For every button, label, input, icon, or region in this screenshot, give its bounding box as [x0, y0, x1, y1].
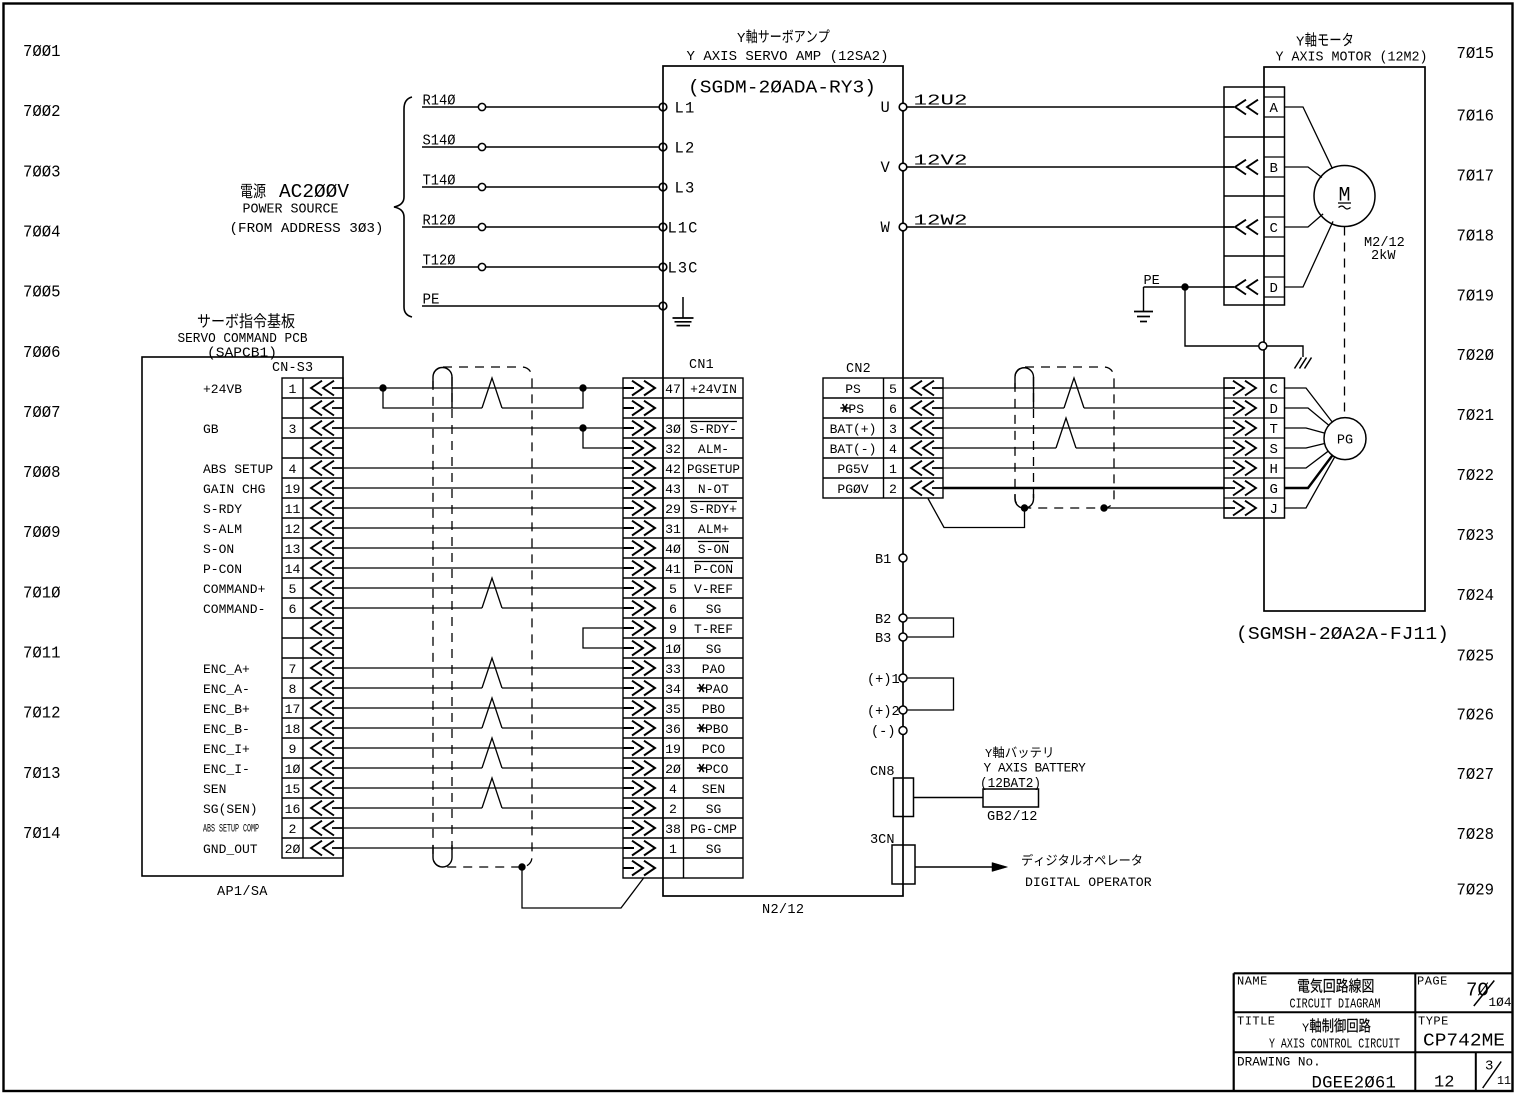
svg-text:ENC_I-: ENC_I-	[203, 762, 250, 777]
wire GB branch to ALM- (row4)	[583, 428, 623, 448]
svg-text:CN-S3: CN-S3	[272, 361, 313, 376]
svg-text:12: 12	[1434, 1074, 1454, 1093]
svg-text:H: H	[1270, 462, 1278, 478]
svg-text:PCO: PCO	[705, 762, 729, 777]
wire pair rows 21/22 with twist symbol	[343, 778, 623, 808]
svg-text:7ØØ3: 7ØØ3	[23, 163, 61, 182]
svg-text:TYPE: TYPE	[1418, 1015, 1449, 1029]
svg-text:DRAWING No.: DRAWING No.	[1237, 1055, 1321, 1070]
svg-text:Y: Y	[1296, 35, 1305, 51]
svg-text:CP742ME: CP742ME	[1423, 1031, 1505, 1052]
svg-text:7Ø28: 7Ø28	[1457, 826, 1495, 845]
svg-text:L3C: L3C	[668, 260, 699, 278]
wire T140 to servo amp	[422, 173, 667, 191]
svg-text:2Ø: 2Ø	[665, 762, 681, 777]
wire CN-S3 row5 to CN1	[343, 467, 623, 469]
svg-text:16: 16	[285, 802, 301, 817]
wire pair rows 11/12 with twist symbol	[343, 578, 623, 608]
svg-text:S: S	[1270, 442, 1278, 458]
battery GB2/12 (12BAT2)	[980, 746, 1086, 825]
connector CN2 on servo amp	[823, 362, 943, 498]
svg-text:Y AXIS MOTOR (12M2): Y AXIS MOTOR (12M2)	[1276, 50, 1428, 66]
svg-text:P-CON: P-CON	[694, 562, 733, 577]
svg-text:3CN: 3CN	[870, 833, 894, 848]
svg-text:47: 47	[665, 382, 681, 397]
svg-text:4: 4	[889, 442, 897, 457]
svg-text:DIGITAL OPERATOR: DIGITAL OPERATOR	[1025, 875, 1152, 890]
svg-text:3: 3	[889, 422, 897, 437]
node terminals L1 L2 L3 L1C L3C	[668, 100, 699, 278]
svg-text:SG(SEN): SG(SEN)	[203, 802, 258, 817]
svg-text:J: J	[1270, 502, 1278, 518]
svg-text:1: 1	[289, 382, 297, 397]
svg-text:PAGE: PAGE	[1417, 975, 1448, 989]
svg-text:(SAPCB1): (SAPCB1)	[207, 346, 277, 362]
node label M2/12 2kW	[1364, 236, 1405, 264]
wire twisted-pair return loop row2	[383, 378, 583, 408]
svg-text:PS: PS	[845, 382, 861, 397]
svg-text:2: 2	[289, 822, 297, 837]
svg-text:1Ø: 1Ø	[665, 642, 681, 657]
svg-text:P-CON: P-CON	[203, 562, 242, 577]
motor symbol M	[1314, 166, 1375, 227]
wire shield drain to CN1 row25	[522, 867, 644, 908]
svg-text:CN8: CN8	[870, 765, 894, 780]
svg-text:L1: L1	[675, 100, 696, 118]
connector CN1 on servo amp	[623, 358, 743, 878]
svg-text:7ØØ1: 7ØØ1	[23, 43, 61, 62]
wire CN-S3 row24 to CN1	[343, 847, 623, 849]
svg-text:ALM-: ALM-	[698, 442, 729, 457]
svg-text:7Ø1Ø: 7Ø1Ø	[23, 584, 61, 603]
svg-text:T-REF: T-REF	[694, 622, 733, 637]
svg-text:Y: Y	[985, 747, 992, 761]
svg-text:PG: PG	[1337, 434, 1353, 449]
svg-text:Y AXIS SERVO AMP (12SA2): Y AXIS SERVO AMP (12SA2)	[687, 49, 889, 65]
svg-text:2kW: 2kW	[1371, 249, 1396, 264]
wire 12W2 phase W amp to motor	[881, 214, 1225, 238]
svg-text:19: 19	[285, 482, 301, 497]
wire pair rows 19/20 with twist symbol	[343, 738, 623, 768]
node motor titles	[1276, 32, 1428, 65]
svg-text:G: G	[1270, 482, 1278, 498]
svg-text:DGEE2Ø61: DGEE2Ø61	[1312, 1075, 1397, 1094]
op-amp/servo amplifier box 12SA2	[663, 66, 903, 896]
svg-text:B2: B2	[875, 613, 891, 628]
connector CN-S3 on PCB	[203, 361, 343, 858]
svg-text:GND_OUT: GND_OUT	[203, 842, 258, 857]
svg-text:CIRCUIT DIAGRAM: CIRCUIT DIAGRAM	[1290, 997, 1381, 1013]
wire C to motor	[1285, 214, 1324, 227]
svg-text:(+)2: (+)2	[867, 705, 900, 720]
svg-text:7Ø14: 7Ø14	[23, 825, 61, 844]
svg-text:4: 4	[669, 782, 677, 797]
svg-text:1: 1	[669, 842, 677, 857]
cable shield envelope (CN-S3 to CN1)	[433, 367, 532, 867]
svg-text:M: M	[1338, 185, 1350, 208]
node PCB titles	[178, 313, 308, 361]
svg-text:7Ø24: 7Ø24	[1457, 587, 1495, 606]
wire BAT(+) to T	[943, 427, 1224, 429]
node shield drain junction	[518, 863, 525, 870]
wire CN8 to battery	[914, 797, 984, 799]
wire CN-S3 row23 to CN1	[343, 827, 623, 829]
node power source label (AC200V)	[230, 181, 384, 237]
title block	[1234, 973, 1513, 1093]
wire PE to servo amp	[422, 292, 667, 310]
svg-text:PBO: PBO	[702, 702, 726, 717]
wire jumper T-REF to SG (rows13-14)	[583, 628, 623, 648]
svg-text:ENC_B+: ENC_B+	[203, 702, 250, 717]
svg-text:BAT(-): BAT(-)	[830, 442, 877, 457]
svg-text:(FROM ADDRESS 3Ø3): (FROM ADDRESS 3Ø3)	[230, 221, 384, 237]
svg-text:3Ø: 3Ø	[665, 422, 681, 437]
shield drain loop bottom	[433, 845, 452, 867]
svg-text:1Ø: 1Ø	[285, 762, 301, 777]
svg-text:3: 3	[1485, 1059, 1493, 1075]
svg-text:7Ø12: 7Ø12	[23, 705, 61, 724]
wire CN-S3 row6 to CN1	[343, 487, 623, 489]
svg-text:COMMAND+: COMMAND+	[203, 582, 266, 597]
svg-text:13: 13	[285, 542, 301, 557]
svg-text:ENC_I+: ENC_I+	[203, 742, 250, 757]
shield drain loop top	[433, 368, 452, 409]
svg-text:33: 33	[665, 662, 681, 677]
svg-text:6: 6	[289, 602, 297, 617]
node shield2 junction right	[1100, 504, 1107, 511]
svg-text:7ØØ9: 7ØØ9	[23, 524, 61, 543]
wire dashed link M to PG	[1344, 227, 1346, 418]
svg-text:AC2ØØV: AC2ØØV	[279, 181, 349, 203]
svg-text:6: 6	[889, 402, 897, 417]
svg-text:(SGMSH-2ØA2A-FJ11): (SGMSH-2ØA2A-FJ11)	[1236, 624, 1449, 645]
svg-text:+24VIN: +24VIN	[690, 382, 737, 397]
svg-text:7Ø21: 7Ø21	[1457, 407, 1495, 426]
svg-text:L1C: L1C	[668, 220, 699, 238]
wire A to motor	[1285, 107, 1333, 169]
connector CN8	[870, 765, 914, 817]
svg-text:B: B	[1270, 161, 1278, 177]
svg-text:L2: L2	[675, 140, 696, 158]
svg-text:43: 43	[665, 482, 681, 497]
svg-text:Y: Y	[737, 31, 746, 47]
svg-text:S-ALM: S-ALM	[203, 522, 242, 537]
wire CN-S3 row9 to CN1	[343, 547, 623, 549]
svg-text:7Ø11: 7Ø11	[23, 645, 61, 664]
svg-text:PBO: PBO	[705, 722, 729, 737]
svg-text:7ØØ7: 7ØØ7	[23, 404, 61, 423]
node label N2/12	[762, 903, 804, 918]
svg-text:7Ø15: 7Ø15	[1457, 45, 1495, 64]
svg-text:11: 11	[1497, 1075, 1511, 1088]
svg-text:(12BAT2): (12BAT2)	[980, 777, 1041, 792]
svg-text:7Ø13: 7Ø13	[23, 765, 61, 784]
svg-text:7Ø2Ø: 7Ø2Ø	[1457, 347, 1495, 366]
svg-text:S-RDY+: S-RDY+	[690, 502, 737, 517]
svg-text:V-REF: V-REF	[694, 582, 733, 597]
svg-text:SEN: SEN	[702, 782, 725, 797]
svg-text:PGSETUP: PGSETUP	[687, 463, 740, 477]
svg-text:19: 19	[665, 742, 681, 757]
svg-text:Y AXIS CONTROL CIRCUIT: Y AXIS CONTROL CIRCUIT	[1269, 1037, 1400, 1053]
wire PG pin H	[1285, 451, 1329, 468]
svg-text:7Ø23: 7Ø23	[1457, 527, 1495, 546]
shield2 drain loop top	[1015, 368, 1034, 408]
svg-text:GB2/12: GB2/12	[987, 810, 1038, 825]
svg-text:11: 11	[285, 502, 301, 517]
svg-text:C: C	[1270, 221, 1278, 237]
svg-text:V: V	[881, 159, 891, 177]
svg-text:S-RDY-: S-RDY-	[690, 422, 737, 437]
svg-text:ENC_A-: ENC_A-	[203, 682, 250, 697]
svg-text:COMMAND-: COMMAND-	[203, 602, 265, 617]
svg-text:U: U	[881, 99, 890, 117]
wire T120 to servo amp	[422, 253, 667, 271]
wire +24VB to +24VIN (row1) with junction nodes	[343, 384, 623, 391]
wire pair rows 17/18 with twist symbol	[343, 698, 623, 728]
connector motor power A B C D	[1224, 87, 1285, 305]
wire PG pin G	[1285, 455, 1333, 488]
node label SGMSH-20A2A-FJ11	[1236, 624, 1449, 645]
svg-text:4Ø: 4Ø	[665, 542, 681, 557]
wire PG pin S	[1285, 444, 1325, 449]
svg-text:BAT(+): BAT(+)	[830, 422, 877, 437]
svg-text:B1: B1	[875, 553, 891, 568]
svg-text:4: 4	[289, 462, 297, 477]
svg-text:3: 3	[289, 422, 297, 437]
svg-text:2: 2	[669, 802, 677, 817]
svg-text:S-ON: S-ON	[698, 542, 729, 557]
wire S140 to servo amp	[422, 133, 667, 151]
svg-text:T: T	[1270, 422, 1278, 438]
svg-text:7Ø27: 7Ø27	[1457, 766, 1495, 785]
svg-text:7ØØ8: 7ØØ8	[23, 464, 61, 483]
svg-text:TITLE: TITLE	[1237, 1015, 1276, 1029]
node label AP1/SA	[217, 885, 268, 900]
svg-text:Y AXIS BATTERY: Y AXIS BATTERY	[984, 761, 1087, 776]
svg-text:CN2: CN2	[846, 362, 871, 377]
svg-text:D: D	[1270, 402, 1278, 418]
svg-text:POWER SOURCE: POWER SOURCE	[243, 202, 339, 218]
wire shield2 drain to CN2	[928, 499, 1025, 528]
terminal (+)1 (+)2 with jumper	[867, 673, 954, 720]
node shield2 junction left	[1021, 504, 1028, 511]
svg-text:1Ø4: 1Ø4	[1489, 995, 1512, 1010]
svg-text:GAIN CHG: GAIN CHG	[203, 482, 265, 497]
wire R140 to servo amp	[422, 93, 667, 111]
svg-text:C: C	[1270, 382, 1278, 398]
power source group brace	[394, 97, 412, 317]
svg-text:5: 5	[669, 582, 677, 597]
svg-text:ABS SETUP: ABS SETUP	[203, 462, 273, 477]
wire 12V2 phase V amp to motor	[881, 154, 1225, 178]
svg-text:Y: Y	[1302, 1021, 1309, 1035]
svg-text:34: 34	[665, 682, 681, 697]
svg-text:31: 31	[665, 522, 681, 537]
svg-text:D: D	[1270, 281, 1278, 297]
svg-text:9: 9	[669, 622, 677, 637]
svg-text:7: 7	[289, 662, 297, 677]
wire PG pin D	[1285, 408, 1329, 425]
svg-text:15: 15	[285, 782, 301, 797]
svg-text:7Ø22: 7Ø22	[1457, 467, 1495, 486]
svg-text:L3: L3	[675, 180, 696, 198]
svg-text:N2/12: N2/12	[762, 903, 804, 918]
terminal B2-B3 with jumper	[875, 613, 954, 647]
svg-text:36: 36	[665, 722, 681, 737]
encoder symbol PG	[1324, 418, 1366, 460]
svg-text:S-ON: S-ON	[203, 542, 234, 557]
wire 12U2 phase U amp to motor	[881, 94, 1225, 118]
svg-text:CN1: CN1	[689, 358, 714, 373]
svg-text:A: A	[1270, 101, 1279, 117]
svg-text:7ØØ6: 7ØØ6	[23, 344, 61, 363]
svg-text:12: 12	[285, 522, 301, 537]
node 7015-7029 right margin line numbers	[1457, 45, 1495, 901]
svg-text:(SGDM-2ØADA-RY3): (SGDM-2ØADA-RY3)	[688, 78, 876, 99]
connector motor PG C D T S H G J	[1224, 378, 1285, 518]
svg-text:AP1/SA: AP1/SA	[217, 885, 268, 900]
svg-text:PAO: PAO	[702, 662, 726, 677]
svg-text:7ØØ5: 7ØØ5	[23, 284, 61, 303]
wire PG5V to H	[943, 467, 1224, 469]
svg-text:38: 38	[665, 822, 681, 837]
svg-text:8: 8	[289, 682, 297, 697]
svg-text:7ØØ2: 7ØØ2	[23, 103, 61, 122]
svg-text:7Ø17: 7Ø17	[1457, 167, 1495, 186]
svg-text:32: 32	[665, 442, 681, 457]
wire CN-S3 row8 to CN1	[343, 527, 623, 529]
wire PG pin C	[1285, 388, 1333, 422]
shield2 drain loop bottom	[1015, 494, 1034, 508]
svg-text:7Ø25: 7Ø25	[1457, 648, 1495, 667]
ground symbol at PE terminal inside amp	[673, 297, 694, 326]
motor M2/12 outline box	[1264, 67, 1425, 611]
wire PG pin T	[1285, 428, 1325, 433]
wire PS to C	[943, 387, 1224, 389]
svg-text:PS: PS	[848, 402, 864, 417]
wire pair rows 15/16 with twist symbol	[343, 658, 623, 688]
svg-text:6: 6	[669, 602, 677, 617]
cable shield envelope (CN2 to PG)	[1015, 367, 1114, 508]
servo command PCB box SAPCB1	[142, 357, 343, 876]
svg-text:29: 29	[665, 502, 681, 517]
svg-text:PAO: PAO	[705, 682, 729, 697]
wire PG0V to G (heavy)	[943, 487, 1224, 490]
svg-text:W: W	[881, 219, 891, 237]
svg-text:PG-CMP: PG-CMP	[690, 822, 737, 837]
wire PG pin J	[1285, 457, 1335, 508]
svg-text:N-OT: N-OT	[698, 482, 729, 497]
svg-text:7Ø16: 7Ø16	[1457, 107, 1495, 126]
svg-text:9: 9	[289, 742, 297, 757]
svg-text:7Ø19: 7Ø19	[1457, 287, 1495, 306]
svg-text:ENC_B-: ENC_B-	[203, 722, 250, 737]
svg-text:PGØV: PGØV	[837, 482, 868, 497]
svg-text:SEN: SEN	[203, 782, 226, 797]
wire CN-S3 row7 to CN1	[343, 507, 623, 509]
svg-text:42: 42	[665, 462, 681, 477]
svg-text:35: 35	[665, 702, 681, 717]
svg-text:ENC_A+: ENC_A+	[203, 662, 250, 677]
terminal B1	[875, 553, 907, 568]
svg-text:(-): (-)	[871, 725, 895, 740]
svg-text:ABS SETUP COMP: ABS SETUP COMP	[203, 824, 259, 836]
svg-text:SG: SG	[706, 842, 722, 857]
svg-text:GB: GB	[203, 422, 219, 437]
wire D to motor	[1285, 221, 1334, 287]
svg-text:SG: SG	[706, 642, 722, 657]
wire BAT(-) to S with twist	[943, 418, 1224, 448]
node servo amp titles	[687, 29, 889, 98]
svg-text:2Ø: 2Ø	[285, 842, 301, 857]
svg-text:14: 14	[285, 562, 301, 577]
svg-text:SG: SG	[706, 802, 722, 817]
svg-text:(+)1: (+)1	[867, 673, 900, 688]
svg-text:7Ø29: 7Ø29	[1457, 882, 1495, 901]
wire CN-S3 row10 to CN1	[343, 567, 623, 569]
svg-text:NAME: NAME	[1237, 975, 1268, 989]
svg-text:18: 18	[285, 722, 301, 737]
svg-text:5: 5	[289, 582, 297, 597]
svg-text:B3: B3	[875, 632, 891, 647]
svg-text:S-RDY: S-RDY	[203, 502, 242, 517]
node label digital operator	[1022, 854, 1152, 890]
svg-text:2: 2	[889, 482, 897, 497]
svg-text:7Ø26: 7Ø26	[1457, 706, 1495, 725]
wire GB to S-RDY- (row3)	[343, 424, 623, 431]
wire 3CN to digital operator with arrowhead	[915, 863, 1008, 872]
svg-text:5: 5	[889, 382, 897, 397]
wire B to motor	[1285, 167, 1322, 178]
svg-text:41: 41	[665, 562, 681, 577]
svg-text:+24VB: +24VB	[203, 382, 242, 397]
wire *PS to D with twist	[943, 378, 1224, 408]
svg-text:1: 1	[889, 462, 897, 477]
svg-text:PG5V: PG5V	[837, 462, 868, 477]
connector 3CN	[870, 833, 915, 884]
svg-text:PCO: PCO	[702, 742, 726, 757]
svg-text:17: 17	[285, 702, 301, 717]
wire R120 to servo amp	[422, 213, 667, 231]
svg-text:7Ø18: 7Ø18	[1457, 227, 1495, 246]
svg-text:ALM+: ALM+	[698, 522, 729, 537]
wire shield2 to J	[1104, 507, 1224, 509]
svg-text:7ØØ4: 7ØØ4	[23, 223, 61, 242]
terminal (-)	[871, 725, 907, 740]
node 7001-7014 left margin line numbers	[23, 43, 61, 844]
svg-text:SG: SG	[706, 602, 722, 617]
wire PE to motor frame	[1134, 274, 1312, 369]
